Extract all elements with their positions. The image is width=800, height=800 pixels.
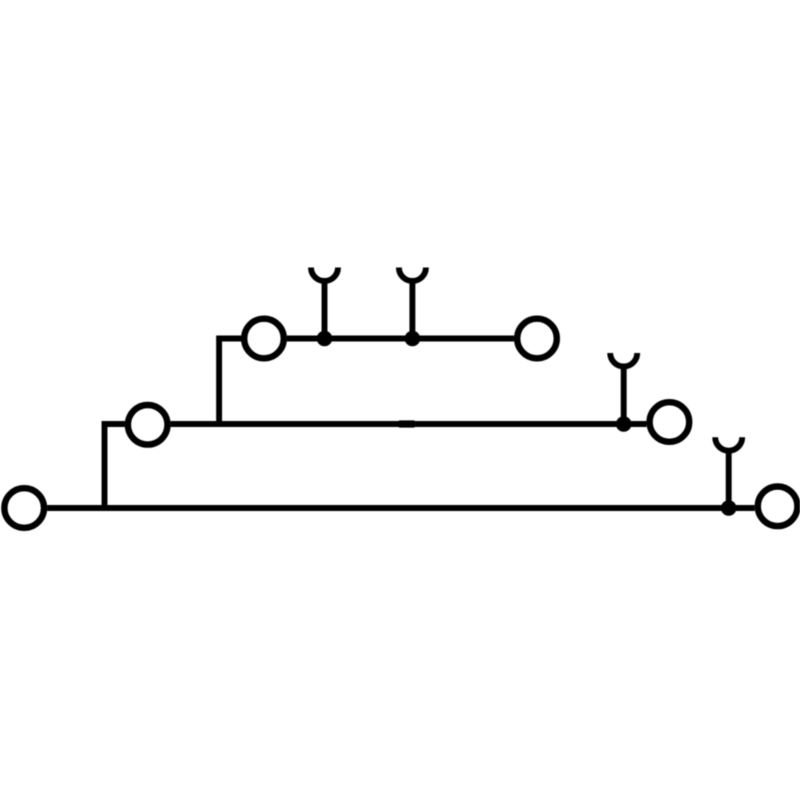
junction dot: level 1 right tap (405, 331, 421, 347)
terminal circle: level 2 right (650, 402, 690, 442)
wire: level-1 bus from left circle to right circle (287, 336, 514, 342)
wire: stem of level-3 test socket (726, 449, 732, 508)
terminal circle: level 1 left (244, 319, 284, 359)
wire: level-2 riser and left segment (corner from level 3 up to level 2) (105, 424, 125, 508)
wire: stem of level-2 test socket (621, 365, 627, 425)
wire: level-1 riser and left segment (corner from level 2 up to level 1) (219, 339, 242, 425)
terminal circle: level 3 left (4, 488, 44, 528)
test socket arc: level 3 (715, 437, 742, 451)
terminal circle: level 3 right (758, 487, 798, 527)
wire: overlapping joint segment on level-2 bus (399, 420, 415, 427)
wire: level-2 bus from left circle to right circle (171, 421, 647, 427)
test socket arc: level 2 (610, 353, 637, 367)
junction dot: level 2 tap (616, 416, 632, 432)
terminal circle: level 2 left (128, 405, 168, 445)
test socket arc: level 1 left (311, 268, 338, 282)
wire: level-3 bus from left circle to right circle (47, 505, 755, 511)
terminal circle: level 1 right (517, 319, 557, 359)
wire: stem of level-1 left test socket (322, 279, 328, 339)
wire: stem of level-1 right test socket (409, 279, 415, 339)
junction dot: level 1 left tap (317, 331, 333, 347)
test socket arc: level 1 right (399, 268, 426, 282)
junction dot: level 3 tap (721, 500, 737, 516)
